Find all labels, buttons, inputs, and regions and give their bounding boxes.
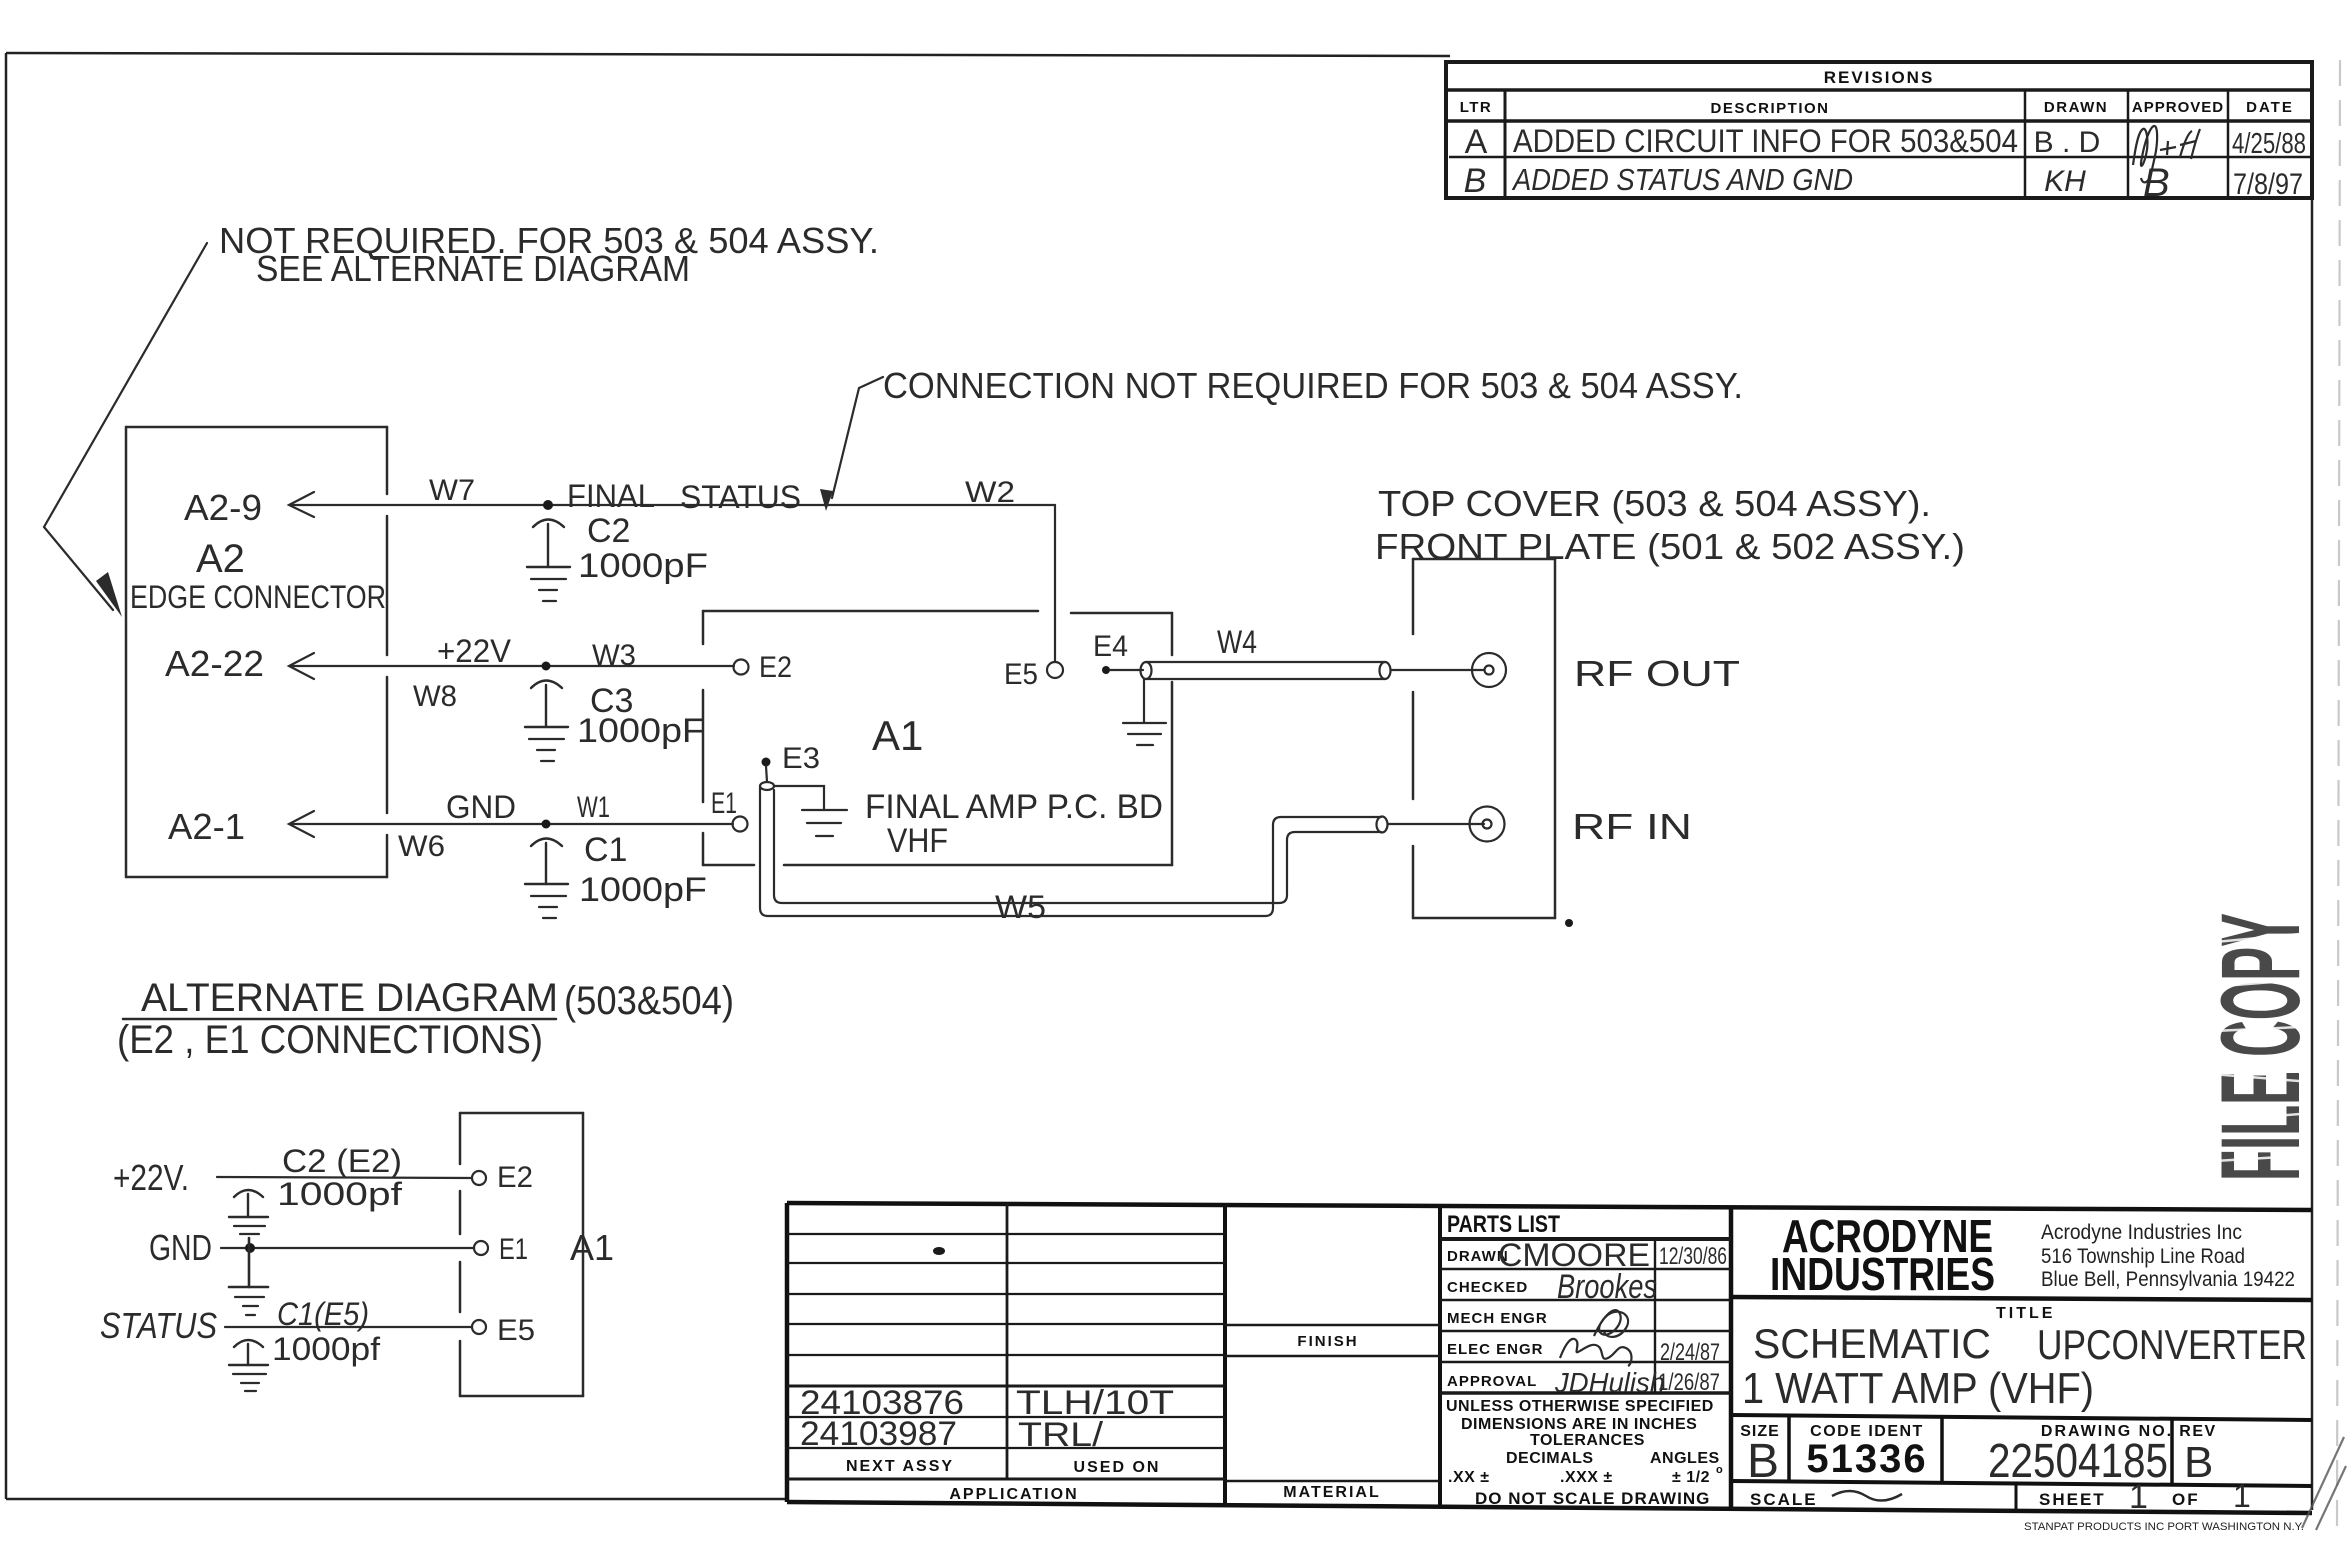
svg-text:APPROVED: APPROVED: [2132, 99, 2224, 116]
junction node on W7 at C2: [543, 500, 553, 510]
connector RF OUT: [1472, 653, 1506, 687]
svg-text:1000pF: 1000pF: [579, 871, 707, 909]
svg-text:C1(E5): C1(E5): [277, 1296, 369, 1332]
svg-text:OF: OF: [2172, 1490, 2200, 1509]
ground below C3: [529, 739, 564, 761]
leader arrowhead onto status wire: [820, 489, 833, 511]
size/code/drawing row frame: [1731, 1415, 2312, 1512]
svg-text:E4: E4: [1093, 630, 1128, 663]
svg-text:LTR: LTR: [1460, 99, 1493, 116]
svg-text:MECH ENGR: MECH ENGR: [1447, 1310, 1548, 1327]
wire W2 from status line down to E5: [1054, 505, 1056, 661]
svg-text:CONNECTION NOT REQUIRED FOR 50: CONNECTION NOT REQUIRED FOR 503 & 504 AS…: [883, 365, 1743, 406]
ground below C1(E5): [233, 1374, 266, 1391]
capacitor C2(E2) symbol: [229, 1190, 268, 1217]
SECTION: alternate diagram: [100, 976, 734, 1396]
svg-text:W7: W7: [429, 474, 475, 507]
ground below C2(E2): [234, 1226, 265, 1234]
svg-text:516 Township Line Road: 516 Township Line Road: [2041, 1245, 2245, 1268]
svg-text:12/30/86: 12/30/86: [1659, 1243, 1727, 1270]
svg-text:Blue Bell, Pennsylvania 19422: Blue Bell, Pennsylvania 19422: [2041, 1268, 2295, 1291]
svg-text:ANGLES: ANGLES: [1650, 1450, 1720, 1467]
svg-text:JDHulish: JDHulish: [1554, 1367, 1665, 1398]
wire W3 (+22V): [291, 665, 734, 667]
svg-text:E1: E1: [499, 1233, 528, 1266]
connector RF IN: [1470, 807, 1505, 842]
svg-text:REVISIONS: REVISIONS: [1824, 68, 1935, 87]
svg-text:1000pf: 1000pf: [272, 1331, 380, 1367]
svg-text:.XX ±: .XX ±: [1448, 1469, 1490, 1486]
svg-text:W6: W6: [398, 830, 445, 863]
svg-text:51336: 51336: [1806, 1437, 1927, 1481]
svg-text:W5: W5: [995, 889, 1046, 925]
svg-text:.XXX ±: .XXX ±: [1560, 1469, 1613, 1486]
svg-text:W4: W4: [1217, 624, 1257, 660]
terminal E4: [1102, 666, 1110, 674]
SECTION: main schematic: [44, 220, 1965, 927]
svg-text:CHECKED: CHECKED: [1447, 1279, 1528, 1296]
svg-text:2/24/87: 2/24/87: [1660, 1339, 1720, 1366]
svg-text:DIMENSIONS ARE IN INCHES: DIMENSIONS ARE IN INCHES: [1461, 1416, 1697, 1433]
ground lines below plate: [235, 1297, 264, 1315]
svg-text:FINAL AMP P.C. BD: FINAL AMP P.C. BD: [865, 788, 1163, 826]
svg-text:APPLICATION: APPLICATION: [949, 1486, 1078, 1503]
svg-text:APPROVAL: APPROVAL: [1447, 1373, 1537, 1390]
svg-text:A2-9: A2-9: [184, 487, 262, 528]
terminal E2: [734, 660, 749, 675]
svg-text:1000pF: 1000pF: [577, 712, 705, 750]
title block outer frame: [787, 1203, 2312, 1513]
svg-text:24103987: 24103987: [800, 1415, 957, 1453]
wire STATUS to E5: [225, 1326, 472, 1328]
connector A2 edge connector box: [126, 427, 387, 877]
wire from W4 to RF OUT connector: [1391, 669, 1484, 671]
svg-text:C2 (E2): C2 (E2): [282, 1143, 402, 1179]
svg-text:W1: W1: [577, 791, 610, 824]
coax cable W5 from E3 to RF IN: [760, 782, 1388, 916]
wire +22V to E2: [217, 1177, 472, 1178]
svg-text:ELEC ENGR: ELEC ENGR: [1447, 1341, 1544, 1358]
terminal E5: [1047, 662, 1063, 678]
terminal E5 (alternate): [472, 1320, 486, 1334]
svg-text:UPCONVERTER: UPCONVERTER: [2037, 1321, 2307, 1368]
wire W1 (GND): [291, 823, 733, 825]
svg-text:1 WATT AMP (VHF): 1 WATT AMP (VHF): [1742, 1364, 2094, 1413]
svg-text:SEE ALTERNATE DIAGRAM: SEE ALTERNATE DIAGRAM: [256, 248, 690, 289]
svg-text:C1: C1: [584, 831, 627, 869]
svg-text:W3: W3: [592, 639, 636, 672]
svg-text:STANPAT PRODUCTS INC PORT WAS: STANPAT PRODUCTS INC PORT WASHINGTON N.Y…: [2024, 1521, 2304, 1533]
terminal E1 (alternate): [474, 1241, 488, 1255]
svg-text:A2-22: A2-22: [165, 643, 264, 684]
finish cell: [1225, 1325, 1440, 1481]
svg-text:VHF: VHF: [887, 822, 948, 860]
svg-text:SCHEMATIC: SCHEMATIC: [1753, 1320, 1991, 1367]
ground below C1: [531, 896, 566, 918]
svg-text:NEXT ASSY: NEXT ASSY: [846, 1458, 954, 1475]
terminal E1: [733, 817, 748, 832]
svg-text:1000pF: 1000pF: [578, 547, 708, 585]
svg-text:DESCRIPTION: DESCRIPTION: [1710, 100, 1829, 117]
svg-text:GND: GND: [149, 1227, 212, 1268]
svg-text:TOLERANCES: TOLERANCES: [1530, 1432, 1645, 1449]
svg-text:STATUS: STATUS: [100, 1305, 217, 1346]
svg-text:TRL/: TRL/: [1018, 1416, 1104, 1454]
svg-text:FRONT PLATE (501 & 502 ASSY.): FRONT PLATE (501 & 502 ASSY.): [1375, 526, 1965, 567]
revisions table frame: [1446, 62, 2312, 198]
svg-text:C2: C2: [587, 512, 630, 550]
ground plate below GND junction: [229, 1286, 268, 1289]
svg-text:GND: GND: [446, 789, 516, 825]
svg-text:B: B: [2143, 161, 2170, 205]
ground below C2: [531, 579, 566, 601]
svg-text:EDGE CONNECTOR: EDGE CONNECTOR: [130, 579, 386, 615]
svg-text:1/26/87: 1/26/87: [1658, 1369, 1720, 1396]
svg-text:± 1/2: ± 1/2: [1672, 1469, 1710, 1486]
svg-text:E5: E5: [1004, 658, 1038, 691]
svg-text:MATERIAL: MATERIAL: [1283, 1484, 1380, 1501]
wire W1 arrowhead at A2-1: [289, 811, 314, 837]
svg-text:+22V: +22V: [437, 633, 512, 669]
svg-text:4/25/88: 4/25/88: [2232, 128, 2306, 160]
leader arrowhead: [96, 572, 122, 617]
application table rows: [787, 1203, 1225, 1479]
wire W3 arrowhead at A2-22: [289, 653, 314, 679]
svg-text:(E2 , E1 CONNECTIONS): (E2 , E1 CONNECTIONS): [117, 1018, 543, 1062]
svg-text:USED ON: USED ON: [1074, 1459, 1161, 1476]
svg-text:B: B: [1747, 1435, 1779, 1488]
title underline: [123, 1018, 556, 1021]
note: not required for 503 & 504 assy: [219, 220, 879, 289]
leader line from note to edge connector: [44, 243, 207, 610]
svg-text:+22V.: +22V.: [113, 1157, 189, 1198]
svg-text:FINISH: FINISH: [1297, 1333, 1358, 1350]
capacitor C1: [525, 839, 568, 885]
svg-text:Acrodyne Industries Inc: Acrodyne Industries Inc: [2041, 1221, 2242, 1244]
svg-text:DECIMALS: DECIMALS: [1506, 1450, 1594, 1467]
capacitor C2: [527, 520, 570, 568]
wire GND to E1: [221, 1247, 474, 1249]
svg-text:A: A: [1465, 123, 1488, 161]
enclosure top cover / front plate box: [1413, 559, 1555, 918]
module A1 bracket box (alternate): [460, 1113, 583, 1396]
svg-text:TOP COVER (503 & 504 ASSY).: TOP COVER (503 & 504 ASSY).: [1378, 483, 1931, 524]
wire W7 arrowhead at A2-9: [289, 492, 314, 517]
svg-text:1: 1: [2233, 1478, 2251, 1514]
junction node on W1 at C1: [542, 820, 551, 829]
svg-text:A1: A1: [872, 712, 923, 759]
stray corner pen marks: [2302, 1437, 2346, 1530]
SECTION: title block: [787, 1203, 2312, 1516]
ground at E4: [1123, 679, 1166, 745]
svg-text:W8: W8: [413, 680, 457, 713]
capacitor C3: [525, 681, 568, 728]
svg-text:1000pf: 1000pf: [277, 1176, 402, 1212]
scanned paper edge artifact: [2337, 60, 2340, 1530]
svg-text:B . D: B . D: [2034, 126, 2101, 159]
parts list cell: [1440, 1239, 1731, 1393]
svg-text:ADDED CIRCUIT INFO FOR 503&504: ADDED CIRCUIT INFO FOR 503&504: [1513, 123, 2018, 159]
svg-text:A2: A2: [196, 537, 245, 581]
terminal E3: [762, 758, 771, 767]
svg-text:B: B: [2184, 1438, 2213, 1487]
svg-text:DO NOT SCALE DRAWING: DO NOT SCALE DRAWING: [1475, 1489, 1710, 1508]
company name ACRODYNE INDUSTRIES: [1731, 1297, 2312, 1300]
svg-text:A1: A1: [570, 1227, 614, 1268]
enclosure corner dot: [1565, 919, 1573, 927]
svg-text:SCALE: SCALE: [1750, 1490, 1818, 1509]
svg-text:E3: E3: [782, 742, 820, 775]
leader line from connection note: [832, 377, 883, 498]
svg-text:Brookes: Brookes: [1557, 1268, 1657, 1306]
wire from E4 to coax W4: [1110, 669, 1143, 671]
svg-text:INDUSTRIES: INDUSTRIES: [1770, 1248, 1995, 1300]
module A1 final amp board box: [703, 611, 1172, 865]
svg-text:TITLE: TITLE: [1996, 1305, 2055, 1322]
svg-text:RF IN: RF IN: [1572, 806, 1692, 847]
svg-text:UNLESS OTHERWISE SPECIFIED: UNLESS OTHERWISE SPECIFIED: [1446, 1398, 1714, 1415]
svg-text:W2: W2: [965, 476, 1015, 509]
junction node on W3 at C3: [542, 662, 551, 671]
svg-text:ALTERNATE DIAGRAM: ALTERNATE DIAGRAM: [141, 976, 558, 1020]
svg-text:A2-1: A2-1: [168, 806, 245, 847]
svg-text:o: o: [1716, 1464, 1723, 1476]
capacitor C1(E5) symbol: [229, 1340, 268, 1365]
svg-text:DATE: DATE: [2246, 99, 2294, 116]
stray ink dot: [933, 1247, 945, 1255]
svg-text:PARTS LIST: PARTS LIST: [1447, 1211, 1560, 1238]
svg-text:ADDED STATUS AND GND: ADDED STATUS AND GND: [1511, 162, 1853, 197]
svg-text:FILE COPY: FILE COPY: [2198, 913, 2323, 1181]
svg-text:STATUS: STATUS: [680, 479, 801, 515]
svg-text:1: 1: [2129, 1478, 2148, 1516]
svg-text:E1: E1: [711, 787, 737, 820]
svg-text:FINAL: FINAL: [567, 478, 655, 514]
vertical tie through GND junction: [248, 1238, 251, 1287]
ground at E3: [802, 810, 847, 836]
svg-text:(503&504): (503&504): [564, 979, 734, 1023]
svg-text:E5: E5: [497, 1314, 535, 1347]
svg-text:E2: E2: [759, 651, 792, 684]
SECTION: stamps and footer: [2024, 60, 2346, 1533]
SECTION: revisions table: [1446, 62, 2312, 205]
svg-text:B: B: [1464, 162, 1487, 200]
junction node on GND wire: [245, 1243, 255, 1253]
terminal E2 (alternate): [472, 1171, 486, 1185]
svg-text:E2: E2: [497, 1161, 533, 1194]
wire from E3 shield to ground: [774, 786, 824, 810]
FILE COPY stamp: [2198, 913, 2323, 1181]
svg-text:KH: KH: [2044, 165, 2086, 198]
wire W7 (final status): [291, 504, 1055, 506]
svg-text:DRAWN: DRAWN: [2044, 99, 2108, 116]
svg-text:SHEET: SHEET: [2039, 1490, 2106, 1509]
wire from W5 to RF IN connector: [1388, 823, 1484, 825]
svg-text:7/8/97: 7/8/97: [2233, 168, 2303, 201]
svg-text:RF OUT: RF OUT: [1574, 653, 1740, 694]
revision row A approved signature: [2133, 126, 2200, 182]
coax cable W4 from E4 to RF OUT: [1141, 662, 1391, 679]
